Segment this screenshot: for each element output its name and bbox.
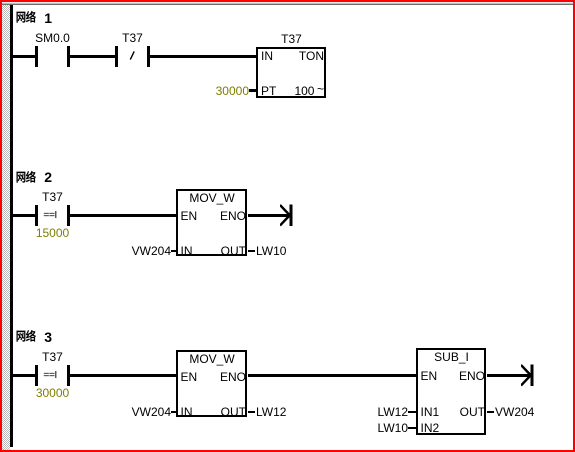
- network 3 label (网络 3): [14, 329, 58, 345]
- operand VW204 (IN) with stub network 3: [134, 406, 177, 418]
- timer box T37 TON: [256, 33, 327, 100]
- operand 30000 (PT preset) with stub: [215, 85, 256, 97]
- wire: contact T37 to timer box: [150, 55, 256, 58]
- operand LW10 (IN2) with stub: [374, 422, 416, 434]
- network 2 label (网络 2): [14, 170, 58, 186]
- operand LW10 (OUT) with stub: [248, 245, 288, 257]
- wire: MOV_W ENO to SUB_I box: [248, 374, 416, 377]
- wire: rail to compare contact: [12, 374, 36, 377]
- wire: ENO output to jump arrow: [248, 214, 290, 217]
- operand LW12 (IN1) with stub: [374, 406, 416, 418]
- compare contact T37 ==I with operand 30000: [35, 351, 70, 400]
- network 1 label (网络 1): [14, 10, 58, 26]
- operand LW12 (OUT) with stub: [248, 406, 288, 418]
- wire: rail to contact SM0.0: [12, 55, 36, 58]
- MOV_W box (move word) network 2: [176, 189, 248, 257]
- wire: rail to compare contact: [12, 214, 36, 217]
- operand VW204 (IN) with stub: [134, 245, 177, 257]
- jump continuation arrow network 3: [521, 364, 534, 387]
- wire: compare contact to MOV_W box: [70, 214, 176, 217]
- MOV_W box (move word) network 3: [176, 350, 248, 418]
- contact SM0.0 (normally open): [35, 32, 70, 69]
- jump continuation arrow network 2: [280, 204, 293, 227]
- operand VW204 (OUT) with stub: [487, 406, 535, 418]
- left power rail: [10, 5, 13, 447]
- contact T37 (normally closed): [115, 32, 150, 69]
- compare contact T37 ==I with operand 15000: [35, 191, 70, 240]
- wire: SUB_I ENO to jump arrow: [487, 374, 531, 377]
- SUB_I box (integer subtract): [416, 348, 487, 436]
- wire: compare contact to MOV_W box: [70, 374, 176, 377]
- wire: contact SM0.0 to contact T37: [70, 55, 115, 58]
